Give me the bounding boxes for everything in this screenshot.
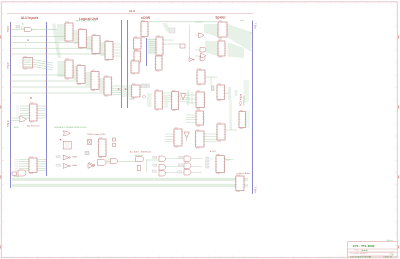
svg-text:A Bus: A Bus: [6, 63, 9, 70]
svg-text:CWR Decode (CWL): CWR Decode (CWL): [87, 134, 106, 136]
svg-text:carry chain: carry chain: [195, 22, 203, 24]
svg-text:B Reg: B Reg: [14, 176, 19, 178]
svg-text:B Bus: B Bus: [6, 121, 9, 128]
svg-text:A Bus: A Bus: [6, 26, 9, 33]
svg-text:74F283 adder: 74F283 adder: [243, 95, 246, 106]
svg-text:a: a: [33, 29, 34, 31]
svg-text:Acc buffer - Shift/Rotate: Acc buffer - Shift/Rotate: [130, 150, 152, 153]
svg-text:ALU: ALU: [129, 9, 135, 13]
svg-text:ALU Inputs: ALU Inputs: [21, 16, 39, 20]
svg-text:B: B: [30, 97, 32, 100]
svg-text:A: A: [27, 39, 29, 42]
svg-text:TITLE:: TITLE:: [354, 250, 360, 252]
svg-text:Y Bus: Y Bus: [253, 23, 256, 30]
svg-text:Sheet: 1/1: Sheet: 1/1: [385, 256, 393, 259]
svg-text:DOCUMENT NUMBER:: DOCUMENT NUMBER:: [350, 253, 369, 255]
svg-text:BCD Adjust: BCD Adjust: [240, 93, 243, 106]
svg-text:Y Bus: Y Bus: [253, 187, 256, 194]
svg-text:74F86 XOR + 74F157 MUX: 74F86 XOR + 74F157 MUX: [76, 21, 98, 23]
svg-text:GENERATE B OPERAND FROM DB SIG: GENERATE B OPERAND FROM DB SIGN: [54, 126, 87, 129]
svg-text:Sign Extension: Sign Extension: [27, 124, 40, 127]
svg-text:Date: 07/04/2019 08:50 AM: Date: 07/04/2019 08:50 AM: [351, 256, 372, 259]
svg-text:(default): (default): [362, 249, 369, 252]
svg-text:<< Bypass Buffer: << Bypass Buffer: [236, 172, 250, 175]
svg-text:A OUT: A OUT: [210, 150, 217, 153]
svg-text:c74alu.sch: c74alu.sch: [386, 240, 393, 242]
svg-text:Spider: Spider: [215, 15, 226, 19]
svg-text:C74 - TTL 6502: C74 - TTL 6502: [353, 244, 375, 248]
svg-text:xCGR: xCGR: [141, 16, 151, 20]
